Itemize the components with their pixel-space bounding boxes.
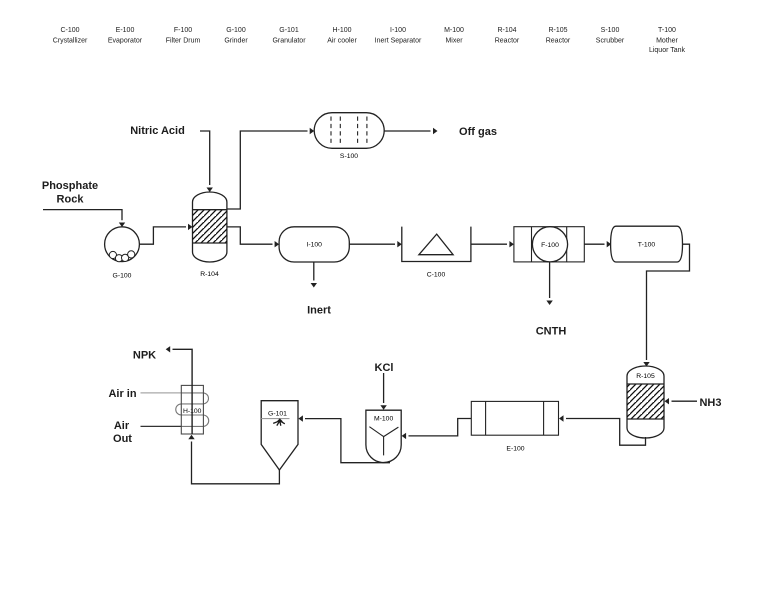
wire R-105 to E-100 — [559, 415, 646, 445]
svg-text:Crystallizer: Crystallizer — [53, 38, 88, 45]
legend E-100 Evaporator — [108, 27, 143, 45]
legend C-100 Crystallizer — [53, 27, 88, 45]
node Inert — [307, 305, 331, 317]
wire H-100 to NPK — [166, 346, 192, 434]
svg-text:R-104: R-104 — [497, 27, 516, 34]
legend G-101 Granulator — [272, 27, 306, 45]
svg-text:E-100: E-100 — [116, 27, 135, 34]
svg-text:Reactor: Reactor — [495, 38, 520, 45]
node Air in — [108, 388, 136, 400]
granulator G-101 — [261, 401, 298, 470]
svg-text:KCl: KCl — [375, 362, 394, 374]
node Air Out — [113, 420, 132, 445]
svg-text:R-104: R-104 — [200, 271, 219, 278]
scrubber S-100 — [314, 113, 384, 160]
svg-text:Air: Air — [114, 420, 130, 432]
svg-text:C-100: C-100 — [60, 27, 79, 34]
evaporator E-100 — [471, 401, 558, 452]
legend S-100 Scrubber — [596, 27, 625, 45]
wire S-100 to off gas — [384, 128, 437, 134]
legend M-100 Mixer — [444, 27, 464, 45]
wire I-100 inert outlet — [311, 262, 317, 288]
inert separator I-100 — [279, 227, 349, 262]
svg-text:F-100: F-100 — [174, 27, 192, 34]
legend R-104 Reactor — [495, 27, 520, 45]
wire R-104 offgas to S-100 — [227, 128, 314, 209]
svg-text:G-100: G-100 — [226, 27, 246, 34]
svg-text:R-105: R-105 — [636, 373, 655, 380]
svg-text:NH3: NH3 — [699, 397, 721, 409]
legend F-100 Filter Drum — [166, 27, 201, 45]
svg-text:Mixer: Mixer — [445, 38, 463, 45]
wire F-100 to T-100 — [584, 241, 611, 247]
svg-text:H-100: H-100 — [332, 27, 351, 34]
tank T-100 — [611, 226, 683, 262]
wire T-100 to R-105 — [643, 244, 689, 366]
wire C-100 to F-100 — [471, 241, 514, 247]
svg-text:G-100: G-100 — [113, 273, 132, 280]
svg-text:Inert Separator: Inert Separator — [375, 38, 422, 45]
node CNTH — [536, 326, 567, 338]
legend G-100 Grinder — [224, 27, 248, 45]
svg-text:M-100: M-100 — [374, 416, 393, 423]
node NPK — [133, 350, 156, 362]
node Off gas — [459, 126, 497, 138]
node KCl — [375, 362, 394, 374]
svg-text:M-100: M-100 — [444, 27, 464, 34]
svg-text:Off gas: Off gas — [459, 126, 497, 138]
wire G-101 to H-100 — [188, 435, 279, 484]
legend I-100 Inert Separator — [375, 27, 422, 45]
svg-text:I-100: I-100 — [390, 27, 406, 34]
svg-text:CNTH: CNTH — [536, 326, 567, 338]
wire F-100 CNTH outlet — [546, 262, 552, 305]
wire nitric acid feed to R-104 — [200, 131, 213, 192]
node Phosphate Rock — [42, 180, 98, 206]
wire G-100 to R-104 — [140, 224, 193, 245]
svg-text:R-105: R-105 — [548, 27, 567, 34]
wire I-100 to C-100 — [349, 241, 402, 247]
crystallizer C-100 — [402, 227, 471, 279]
svg-text:F-100: F-100 — [541, 242, 559, 249]
node NH3 — [699, 397, 721, 409]
node Nitric Acid — [130, 125, 185, 137]
svg-text:Reactor: Reactor — [546, 38, 571, 45]
svg-text:C-100: C-100 — [427, 272, 446, 279]
wire phosphate rock feed to G-100 — [43, 210, 125, 227]
wire E-100 to M-100 — [402, 419, 472, 440]
svg-text:T-100: T-100 — [638, 242, 656, 249]
svg-text:Filter Drum: Filter Drum — [166, 38, 201, 45]
svg-text:E-100: E-100 — [506, 446, 524, 453]
reactor R-105 — [627, 366, 664, 438]
mixer M-100 — [366, 410, 401, 462]
svg-text:Inert: Inert — [307, 305, 331, 317]
svg-text:Phosphate: Phosphate — [42, 180, 98, 192]
svg-text:G-101: G-101 — [268, 411, 287, 418]
svg-text:I-100: I-100 — [306, 242, 322, 249]
svg-text:T-100: T-100 — [658, 27, 676, 34]
wire M-100 to G-101 — [298, 415, 390, 462]
svg-text:G-101: G-101 — [279, 27, 299, 34]
svg-text:Air in: Air in — [108, 388, 136, 400]
svg-text:Out: Out — [113, 433, 132, 445]
reactor R-104 — [193, 192, 227, 278]
svg-text:Evaporator: Evaporator — [108, 38, 143, 45]
wire KCl feed to M-100 — [380, 373, 386, 410]
legend T-100 Mother Liquor Tank — [649, 27, 686, 54]
legend R-105 Reactor — [546, 27, 571, 45]
svg-text:NPK: NPK — [133, 350, 156, 362]
wire NH3 feed to R-105 — [665, 398, 698, 404]
grinder G-100 — [105, 227, 140, 280]
air cooler H-100 — [141, 385, 209, 434]
svg-text:S-100: S-100 — [340, 153, 358, 160]
legend H-100 Air cooler — [327, 27, 357, 45]
filter drum F-100 — [514, 227, 584, 262]
svg-text:Scrubber: Scrubber — [596, 38, 625, 45]
svg-text:Grinder: Grinder — [224, 38, 248, 45]
svg-text:Rock: Rock — [57, 194, 85, 206]
svg-text:Granulator: Granulator — [272, 38, 306, 45]
svg-text:Mother: Mother — [656, 38, 678, 45]
wire R-104 to I-100 — [227, 227, 279, 248]
svg-text:S-100: S-100 — [601, 27, 620, 34]
svg-text:Liquor Tank: Liquor Tank — [649, 47, 686, 54]
svg-text:Nitric Acid: Nitric Acid — [130, 125, 185, 137]
svg-text:Air cooler: Air cooler — [327, 38, 357, 45]
